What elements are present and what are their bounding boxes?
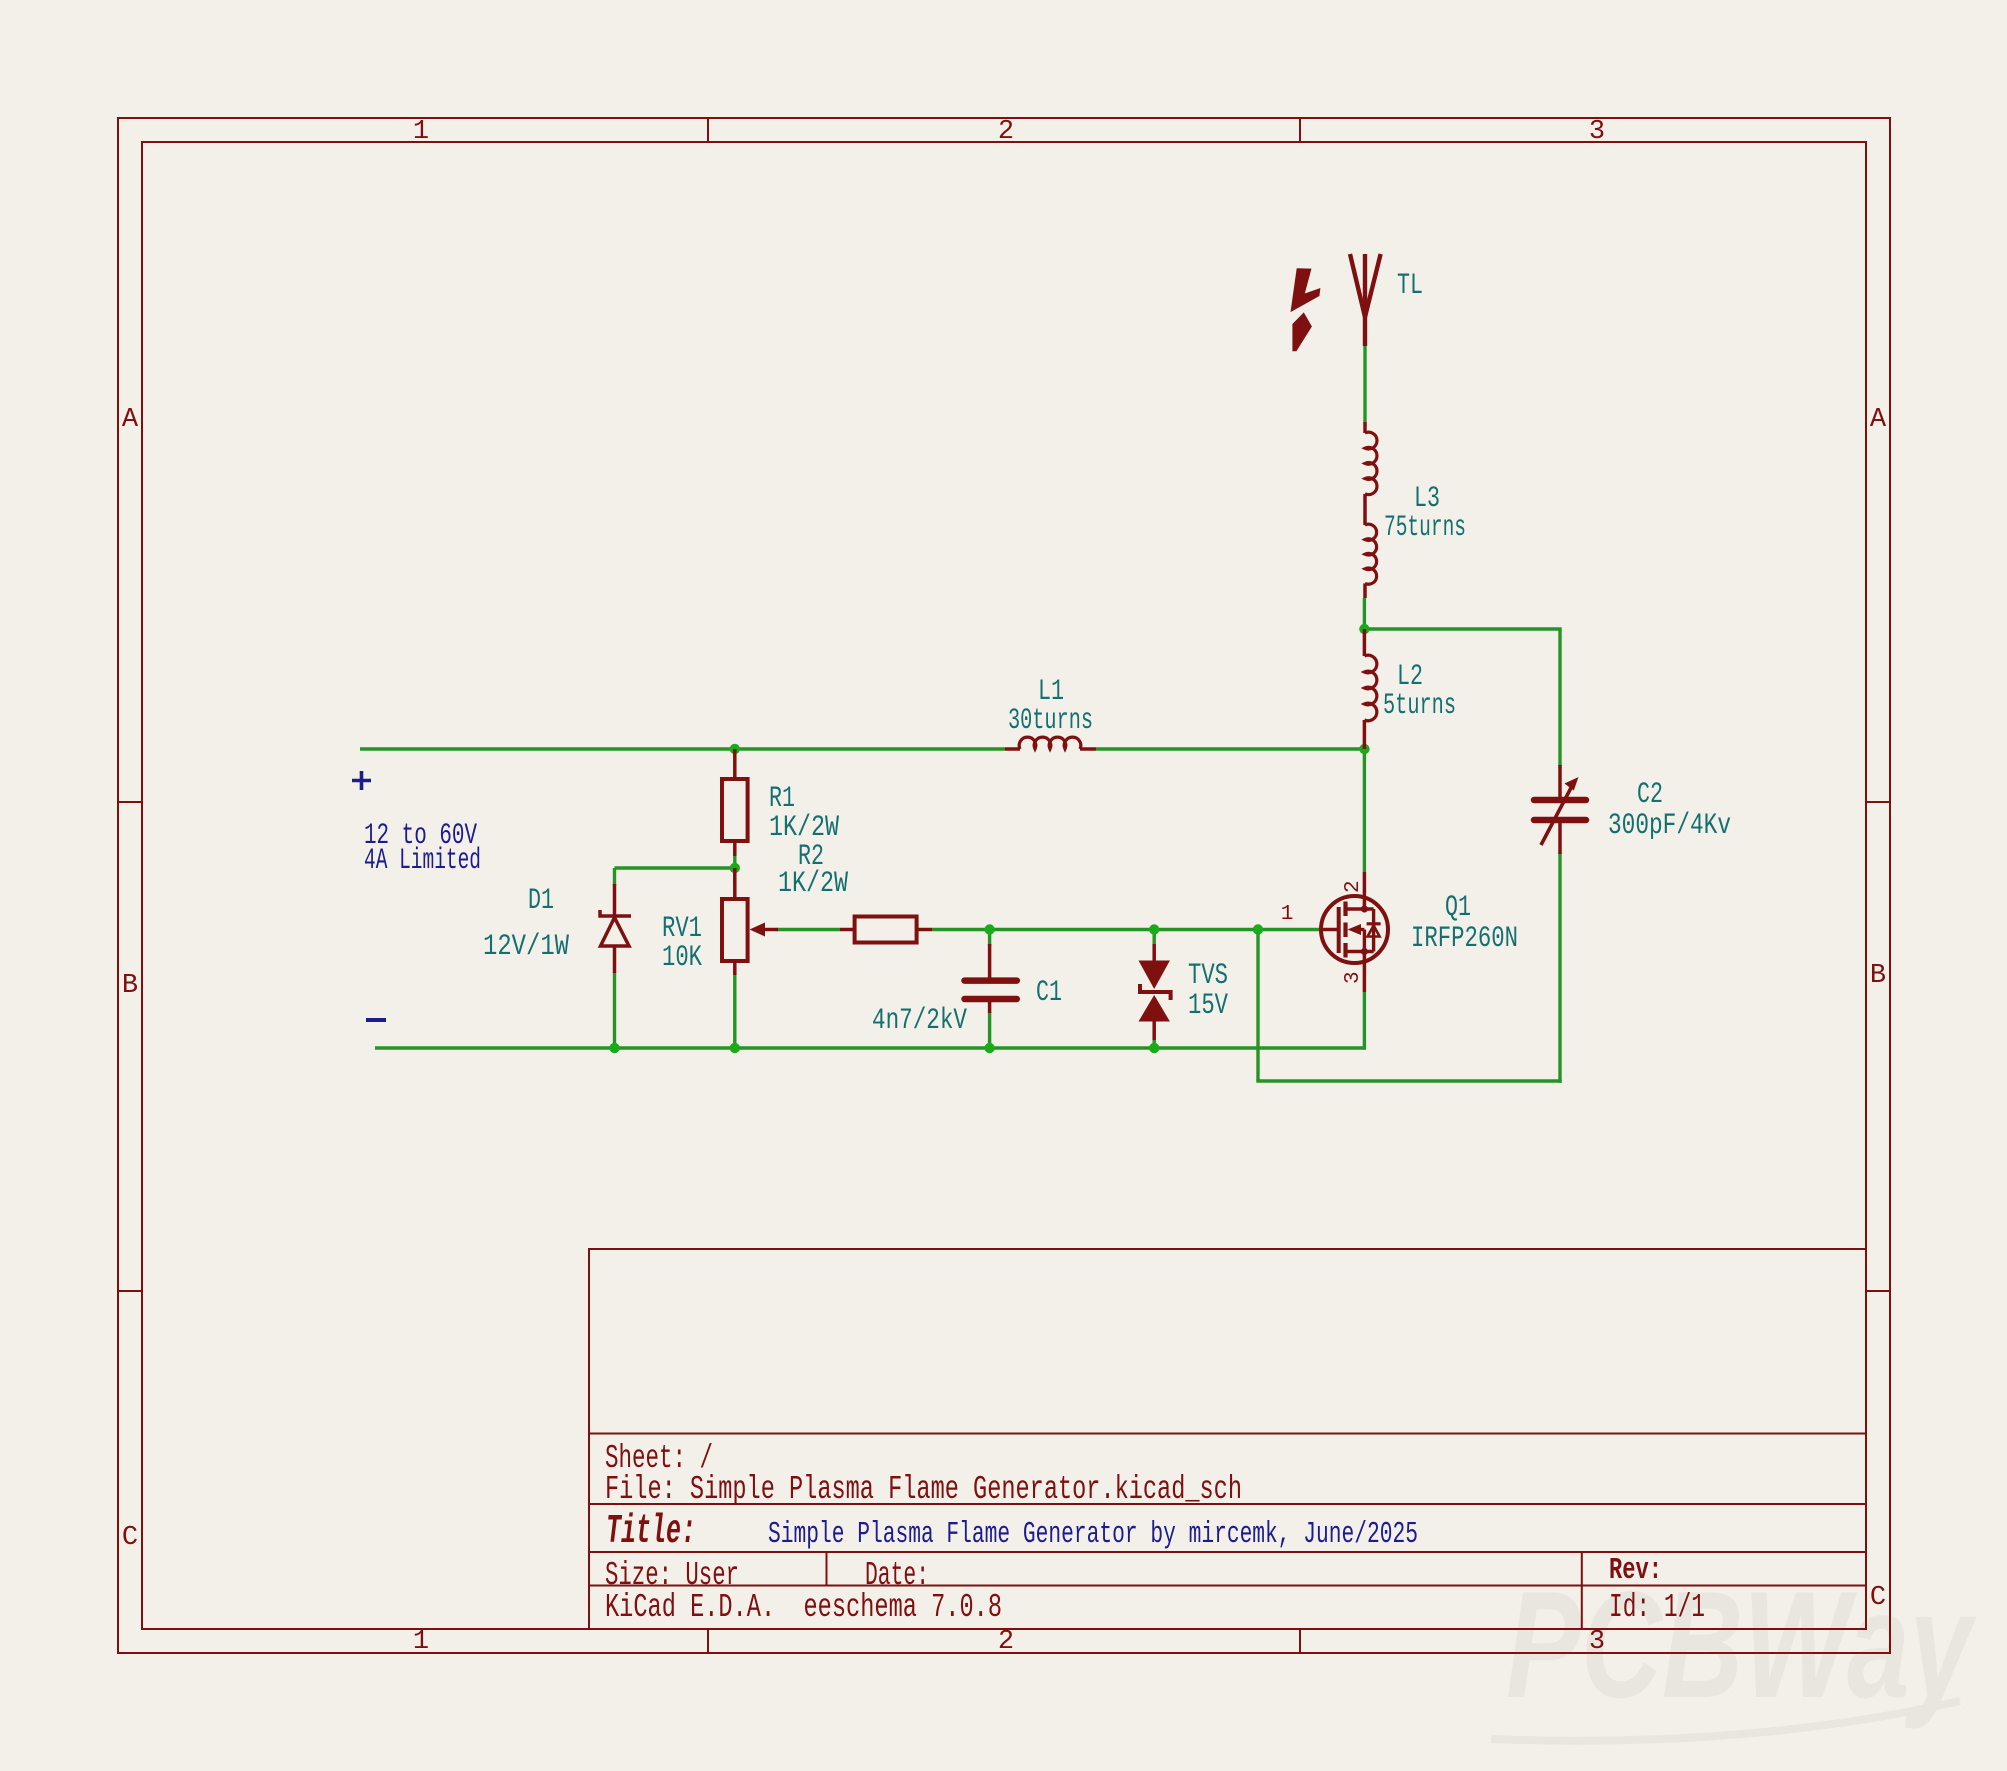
PCBWay watermark swoosh [1491,1701,1960,1741]
junction bottom rail / C1 [984,1043,994,1053]
svg-text:2: 2 [1342,880,1365,893]
svg-text:1K/2W: 1K/2W [778,867,848,901]
potentiometer RV1 wiper pin [765,928,778,932]
svg-text:3: 3 [1589,1627,1605,1657]
inductor L3 top pin [1363,422,1367,433]
capacitor C2 adjust arrowhead [1565,777,1579,791]
inductor L1 left pin [1005,747,1020,751]
svg-text:IRFP260N: IRFP260N [1411,922,1518,956]
svg-text:12V/1W: 12V/1W [483,930,569,964]
svg-text:C2: C2 [1637,778,1663,812]
junction L3 / L2 / C2 [1359,624,1369,634]
capacitor C2 adjust arrow shaft [1541,784,1573,845]
wire antenna to L3 [1363,346,1366,422]
wire D1 bottom vertical [613,972,616,1048]
title block divider Size/Date [826,1552,828,1586]
svg-text:TVS: TVS [1188,959,1228,993]
sheet outer border [118,118,1890,1653]
title block separator above Size [589,1551,1866,1553]
wire RV1 wiper to R2 [777,928,840,931]
wire Q1 source vertical [1363,992,1366,1050]
wire C2 top vertical [1558,629,1561,766]
junction gate rail / C1 [984,924,994,934]
junction L1 / L2 / Q1 drain [1359,744,1369,754]
lightning bolt lower stroke [1292,312,1312,351]
svg-text:D1: D1 [528,884,554,918]
minus symbol of supply [366,1018,386,1022]
svg-text:4A Limited: 4A Limited [364,844,481,878]
wire Q1 drain vertical [1363,749,1366,872]
zener D1 cathode bar [600,910,631,916]
svg-text:1: 1 [1281,903,1294,926]
wire L3 bottom stub [1363,598,1366,630]
zener D1 anode pin [613,946,617,973]
inductor L1 right pin [1080,747,1096,751]
svg-text:Q1: Q1 [1445,891,1471,925]
inductor L2 coil [1364,655,1376,721]
capacitor C2 top pin [1558,765,1562,797]
svg-text:75turns: 75turns [1384,511,1466,545]
title block separator above Sheet [589,1433,1866,1435]
right tick row B/C [1866,1290,1890,1292]
capacitor C2 bottom plate [1534,817,1586,824]
transistor Q1 body arrow [1348,924,1362,935]
svg-text:C1: C1 [1036,976,1062,1010]
svg-text:2: 2 [998,1627,1014,1657]
lightning bolt upper stroke [1291,268,1321,312]
wire C1 top stub [988,930,991,947]
inductor L2 bottom pin [1363,720,1367,749]
transistor Q1 symbol group [1321,872,1388,992]
junction gate rail / C2 loop [1253,924,1263,934]
resistor R2 body [855,917,917,943]
wire gate to C2 loop vertical [1256,930,1259,1082]
svg-text:5turns: 5turns [1383,689,1456,723]
TVS center bar [1140,984,1171,1000]
svg-text:2: 2 [998,117,1014,147]
bottom tick col 2/3 [1299,1629,1301,1653]
potentiometer RV1 wiper arrow [750,923,766,937]
wire D1 top vertical [613,868,616,886]
right tick row A/B [1866,801,1890,803]
svg-text:3: 3 [1589,117,1605,147]
junction RV1 / bottom rail [730,1043,740,1053]
bottom tick col 1/2 [707,1629,709,1653]
svg-text:File: Simple Plasma Flame Gene: File: Simple Plasma Flame Generator.kica… [605,1471,1242,1508]
svg-text:Title:: Title: [606,1509,696,1555]
junction D1 / bottom rail [609,1043,619,1053]
svg-text:Id: 1/1: Id: 1/1 [1609,1589,1705,1626]
wire gate rail R2 to Q1 [932,928,1321,931]
wire bottom rail [375,1046,1364,1049]
title block outline [589,1249,1866,1629]
svg-text:C: C [1870,1583,1886,1613]
TVS bottom triangle [1139,995,1170,1022]
svg-text:Simple Plasma Flame Generator: Simple Plasma Flame Generator by mircemk… [768,1517,1418,1552]
svg-text:300pF/4Kv: 300pF/4Kv [1608,809,1731,843]
resistor R1 body [722,779,748,841]
inductor L1 coil [1019,737,1081,749]
capacitor C1 bottom plate [965,996,1017,1003]
transistor Q1 drain node dot [1361,905,1368,912]
inductor L3 bottom pin [1363,583,1367,598]
inductor L3 middle link [1363,494,1367,525]
inductor L3 upper coil [1365,432,1377,494]
svg-text:30turns: 30turns [1008,704,1093,738]
potentiometer RV1 body [722,899,748,961]
junction top rail / R1 [730,744,740,754]
capacitor C1 top pin [988,944,992,978]
plus symbol of supply [352,771,371,790]
wire top rail right of L1 [1096,747,1364,750]
top tick col 1/2 [707,118,709,142]
wire C2 bottom vertical [1558,853,1561,1083]
wire TVS top stub [1152,930,1155,946]
resistor R1 top pin [733,749,737,779]
svg-text:B: B [122,971,138,1001]
svg-text:3: 3 [1342,971,1365,984]
resistor R1 bottom pin [733,841,737,856]
svg-text:B: B [1870,961,1886,991]
svg-text:4n7/2kV: 4n7/2kV [872,1004,967,1038]
inductor L3 lower coil [1365,524,1377,584]
wire L2 top to C2 horizontal [1363,627,1562,630]
left tick row A/B [118,801,142,803]
svg-text:C: C [122,1523,138,1553]
TVS bottom pin [1152,1022,1156,1041]
capacitor C2 bottom pin [1558,823,1562,854]
svg-text:1: 1 [413,1627,429,1657]
svg-text:A: A [1870,405,1887,435]
wire D1 branch horizontal [615,866,735,869]
title block separator above Title [589,1503,1866,1505]
capacitor C1 bottom pin [988,1002,992,1013]
TVS top triangle [1139,961,1170,990]
svg-text:15V: 15V [1188,989,1228,1023]
transistor Q1 source node dot [1361,948,1368,955]
zener D1 triangle [601,918,630,947]
antenna TL stem [1363,254,1367,346]
top tick col 2/3 [1299,118,1301,142]
zener D1 cathode pin [613,884,617,916]
wire C2 loop bottom horizontal [1256,1079,1561,1082]
capacitor C1 top plate [965,977,1017,984]
potentiometer RV1 bottom pin [733,961,737,975]
svg-text:KiCad E.D.A. eeschema 7.0.8: KiCad E.D.A. eeschema 7.0.8 [605,1589,1002,1626]
sheet inner border [142,142,1866,1629]
title block separator above KiCad row [589,1585,1866,1587]
svg-text:10K: 10K [662,941,702,975]
svg-text:1: 1 [413,117,429,147]
svg-text:A: A [122,405,139,435]
wire TVS bottom stub [1152,1039,1155,1048]
wire C1 bottom stub [988,1012,991,1048]
svg-text:Rev:: Rev: [1609,1553,1662,1588]
TVS top pin [1152,944,1156,961]
wire RV1 bottom vertical [733,974,736,1048]
svg-text:TL: TL [1397,269,1423,303]
antenna TL V arms [1350,254,1381,317]
potentiometer RV1 top pin [733,868,737,899]
resistor R2 right pin [917,928,932,932]
junction gate rail / TVS [1149,924,1159,934]
inductor L2 top pin [1363,629,1367,656]
wire R1 bottom to RV1 top [733,855,736,884]
capacitor C2 top plate [1534,797,1586,804]
wire top rail left of L1 [360,747,1005,750]
junction R1 / RV1 / D1 [730,863,740,873]
junction bottom rail / TVS [1149,1043,1159,1053]
left tick row B/C [118,1290,142,1292]
resistor R2 left pin [840,928,855,932]
title block divider Rev box [1581,1552,1583,1629]
